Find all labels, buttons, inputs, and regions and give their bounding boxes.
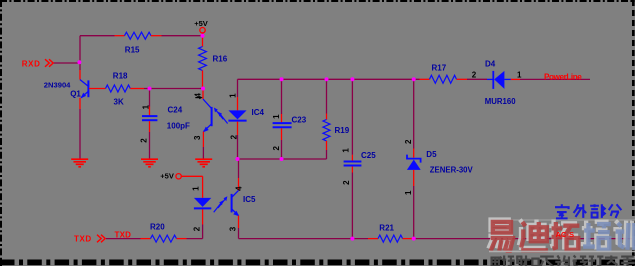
svg-text:R20: R20 xyxy=(150,223,165,232)
svg-text:R17: R17 xyxy=(432,64,447,73)
svg-text:D4: D4 xyxy=(485,59,496,68)
svg-text:1: 1 xyxy=(517,71,522,80)
svg-text:C23: C23 xyxy=(292,116,307,125)
svg-text:4: 4 xyxy=(234,186,243,191)
svg-text:+5V: +5V xyxy=(194,19,208,28)
svg-text:1: 1 xyxy=(192,186,201,191)
svg-text:2: 2 xyxy=(140,138,149,143)
svg-text:2: 2 xyxy=(342,180,351,185)
svg-text:2N3904: 2N3904 xyxy=(44,80,71,89)
svg-text:AC-S: AC-S xyxy=(556,230,575,239)
svg-text:R16: R16 xyxy=(213,55,228,64)
svg-text:PowerLine: PowerLine xyxy=(544,72,582,81)
svg-text:C25: C25 xyxy=(361,151,376,160)
svg-text:2: 2 xyxy=(193,226,202,231)
svg-text:IC4: IC4 xyxy=(252,108,265,117)
svg-text:TXD: TXD xyxy=(74,235,92,244)
svg-text:TXD: TXD xyxy=(115,231,132,240)
svg-text:2: 2 xyxy=(404,139,413,144)
svg-text:D5: D5 xyxy=(426,150,437,159)
svg-text:100pF: 100pF xyxy=(167,122,190,131)
svg-text:2: 2 xyxy=(272,145,281,150)
svg-text:1: 1 xyxy=(342,148,351,153)
svg-text:RXD: RXD xyxy=(22,60,41,69)
svg-text:C24: C24 xyxy=(168,105,183,114)
svg-text:IC5: IC5 xyxy=(243,195,256,204)
svg-text:R19: R19 xyxy=(335,126,350,135)
svg-text:1: 1 xyxy=(141,104,150,109)
svg-text:3K: 3K xyxy=(114,98,124,107)
svg-text:ZENER-30V: ZENER-30V xyxy=(430,165,474,174)
svg-text:R15: R15 xyxy=(125,46,140,55)
svg-text:+5V: +5V xyxy=(160,172,174,181)
svg-text:3: 3 xyxy=(228,226,237,231)
svg-text:3: 3 xyxy=(193,135,202,140)
svg-text:1: 1 xyxy=(228,93,237,98)
svg-text:2: 2 xyxy=(472,71,477,80)
svg-text:MUR160: MUR160 xyxy=(485,97,516,106)
svg-text:1: 1 xyxy=(272,114,281,119)
svg-text:R21: R21 xyxy=(379,224,394,233)
svg-text:4: 4 xyxy=(194,93,203,98)
svg-text:Q1: Q1 xyxy=(70,90,81,99)
svg-text:R18: R18 xyxy=(113,72,128,81)
svg-text:2: 2 xyxy=(229,134,238,139)
svg-text:1: 1 xyxy=(404,190,413,195)
